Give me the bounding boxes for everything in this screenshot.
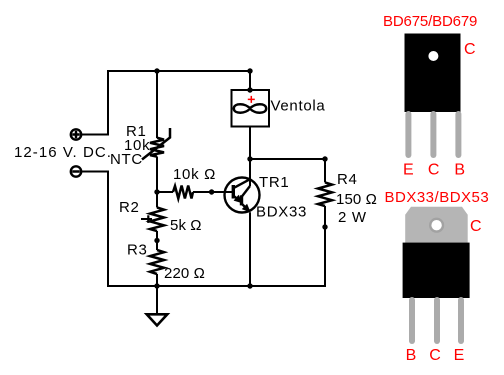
junction dot on ventola box top xyxy=(247,87,252,92)
junction dot base branch xyxy=(154,189,159,194)
svg-text:NTC: NTC xyxy=(110,151,143,168)
junction dot R4 bottom xyxy=(322,224,327,229)
package 2 leg C xyxy=(434,297,440,344)
package 1 body (TO-126) xyxy=(405,34,461,113)
svg-text:150 Ω: 150 Ω xyxy=(336,191,377,208)
svg-text:B: B xyxy=(454,161,465,178)
svg-text:BDX33: BDX33 xyxy=(256,204,307,221)
wire: R1 branch vertical xyxy=(156,71,158,286)
junction dot between R2 and R3 xyxy=(154,238,159,243)
R2 wiper arrow xyxy=(141,215,152,223)
package 1 leg B xyxy=(455,111,461,158)
resistor R4 zigzag xyxy=(318,182,332,206)
package 2 hole xyxy=(431,220,441,230)
resistor 10k horizontal zigzag xyxy=(173,186,193,199)
NTC diagonal stroke of R1 xyxy=(142,128,170,160)
svg-text:C: C xyxy=(464,41,476,58)
svg-text:C: C xyxy=(428,161,440,178)
wire: plus terminal to top rail xyxy=(81,71,250,135)
ground stub xyxy=(156,286,158,314)
svg-text:5k Ω: 5k Ω xyxy=(170,217,202,234)
svg-text:12-16 V. DC.: 12-16 V. DC. xyxy=(14,144,112,161)
package 2 hole ring xyxy=(429,218,444,233)
svg-text:C: C xyxy=(470,218,482,235)
wire: base wire xyxy=(157,191,234,193)
resistor R3 zigzag xyxy=(150,250,164,274)
transistor TR1 circle xyxy=(225,178,260,213)
svg-text:R2: R2 xyxy=(119,199,140,216)
package 2 leg E xyxy=(458,297,464,344)
svg-text:B: B xyxy=(406,347,417,364)
potentiometer R2 zigzag xyxy=(150,208,164,232)
motor infinity symbol xyxy=(234,104,266,112)
package 2 body (TO-3P) xyxy=(403,243,470,298)
svg-text:C: C xyxy=(429,347,441,364)
wire: minus terminal to bottom rail xyxy=(81,172,325,287)
junction dot top rail right corner xyxy=(247,68,252,73)
wire: R4 leads xyxy=(324,159,326,287)
red plus inside ventola xyxy=(248,96,255,103)
terminal plus xyxy=(71,129,81,139)
svg-text:220 Ω: 220 Ω xyxy=(164,265,205,282)
svg-text:R4: R4 xyxy=(337,171,358,188)
fan box (Ventola) xyxy=(232,90,270,127)
svg-text:10k Ω: 10k Ω xyxy=(173,166,216,183)
junction dot near base xyxy=(209,189,214,194)
svg-text:R3: R3 xyxy=(127,242,148,259)
svg-text:TR1: TR1 xyxy=(259,174,289,191)
wire: emitter down xyxy=(249,213,251,287)
junction dot R4 top xyxy=(322,156,327,161)
package 1 leg C xyxy=(430,111,436,158)
junction dot top rail / R1 xyxy=(154,68,159,73)
wire: ventola drop from rail xyxy=(249,71,251,90)
svg-text:E: E xyxy=(403,161,414,178)
svg-text:2 W: 2 W xyxy=(338,209,367,226)
svg-text:BD675/BD679: BD675/BD679 xyxy=(383,13,477,30)
terminal minus xyxy=(71,166,81,176)
package 1 mounting hole xyxy=(428,51,438,61)
svg-text:E: E xyxy=(454,347,465,364)
svg-text:BDX33/BDX53: BDX33/BDX53 xyxy=(385,189,490,206)
wire: ventola bottom to collector xyxy=(249,127,251,187)
resistor R1 (NTC thermistor) zigzag xyxy=(150,138,164,157)
package 2 metal tab xyxy=(405,207,468,245)
wire: collector branch to R4 xyxy=(250,158,325,160)
svg-text:Ventola: Ventola xyxy=(271,98,326,115)
junction dot collector branch xyxy=(247,156,252,161)
transistor TR1 darlington internals xyxy=(233,179,250,211)
package 2 leg B xyxy=(409,297,415,344)
package 1 leg E xyxy=(405,111,411,158)
ground symbol xyxy=(147,314,168,325)
junction dot emitter / bottom rail xyxy=(247,283,252,288)
junction dot R3 bottom rail xyxy=(154,283,159,288)
